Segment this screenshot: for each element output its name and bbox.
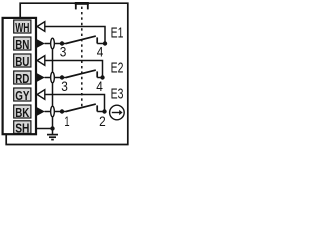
contact E3 fixed terminal: [96, 105, 98, 111]
hop oval BK: [51, 106, 55, 117]
cell BN: [14, 37, 31, 52]
cell BK: [14, 105, 31, 120]
arrow WH (open, left): [37, 22, 45, 32]
wire RD: [45, 77, 67, 79]
contact E1 lever: [66, 36, 96, 43]
svg-text:SH: SH: [15, 121, 29, 136]
wire SH: [37, 128, 54, 130]
wire WH: [45, 27, 106, 44]
contact E1 right wire: [97, 43, 105, 45]
contact E1 fixed terminal: [96, 37, 98, 43]
arrow BN (filled, right): [36, 39, 45, 48]
svg-text:3: 3: [60, 45, 67, 61]
svg-text:4: 4: [96, 79, 103, 95]
terminal dot E2 right: [100, 75, 104, 79]
terminal dot E3 right: [102, 109, 106, 113]
cell SH: [14, 121, 31, 136]
arrow BK (filled, right): [36, 107, 45, 116]
contact E3 right wire: [97, 111, 104, 113]
terminal dot E2 left: [60, 75, 64, 79]
arrow GY (open, left): [37, 90, 45, 100]
actuator bracket: [75, 3, 89, 9]
wire GY: [45, 95, 105, 112]
svg-text:3: 3: [61, 79, 68, 95]
svg-text:E2: E2: [111, 60, 124, 76]
svg-text:RD: RD: [15, 71, 29, 86]
cell BU: [14, 54, 31, 69]
terminal block box: [3, 18, 36, 134]
svg-text:WH: WH: [15, 20, 29, 35]
arrow RD (filled, right): [36, 73, 45, 82]
contact E2 fixed terminal: [96, 71, 98, 77]
shield drain bus: [52, 44, 54, 129]
terminal dot E1 right: [103, 41, 107, 45]
mechanical linkage dashed line: [81, 7, 83, 109]
svg-text:GY: GY: [15, 88, 29, 103]
wire BU: [45, 61, 103, 78]
svg-text:2: 2: [99, 114, 106, 130]
hop oval BN: [51, 38, 55, 49]
svg-text:E1: E1: [111, 26, 124, 42]
terminal dot E1 left: [60, 41, 64, 45]
shield loop boundary wire: [6, 3, 128, 144]
actuator circle E3: [110, 105, 125, 120]
wire BN: [45, 43, 67, 45]
ground symbol: [47, 129, 58, 140]
cell GY: [14, 88, 31, 103]
terminal dot E3 left: [60, 109, 64, 113]
contact E3 lever: [66, 104, 96, 111]
wire BK: [45, 111, 67, 113]
svg-text:BU: BU: [15, 54, 29, 69]
svg-text:4: 4: [97, 45, 104, 61]
contact E2 lever: [66, 70, 96, 77]
hop oval RD: [51, 72, 55, 83]
arrow BU (open, left): [37, 56, 45, 66]
contact E2 right wire: [97, 77, 102, 79]
svg-text:1: 1: [64, 114, 69, 130]
junction dot SH/ground: [50, 126, 54, 130]
svg-text:E3: E3: [111, 87, 124, 103]
svg-text:BN: BN: [15, 37, 29, 52]
svg-text:BK: BK: [15, 105, 30, 120]
cell WH: [14, 20, 31, 35]
cell RD: [14, 71, 31, 86]
